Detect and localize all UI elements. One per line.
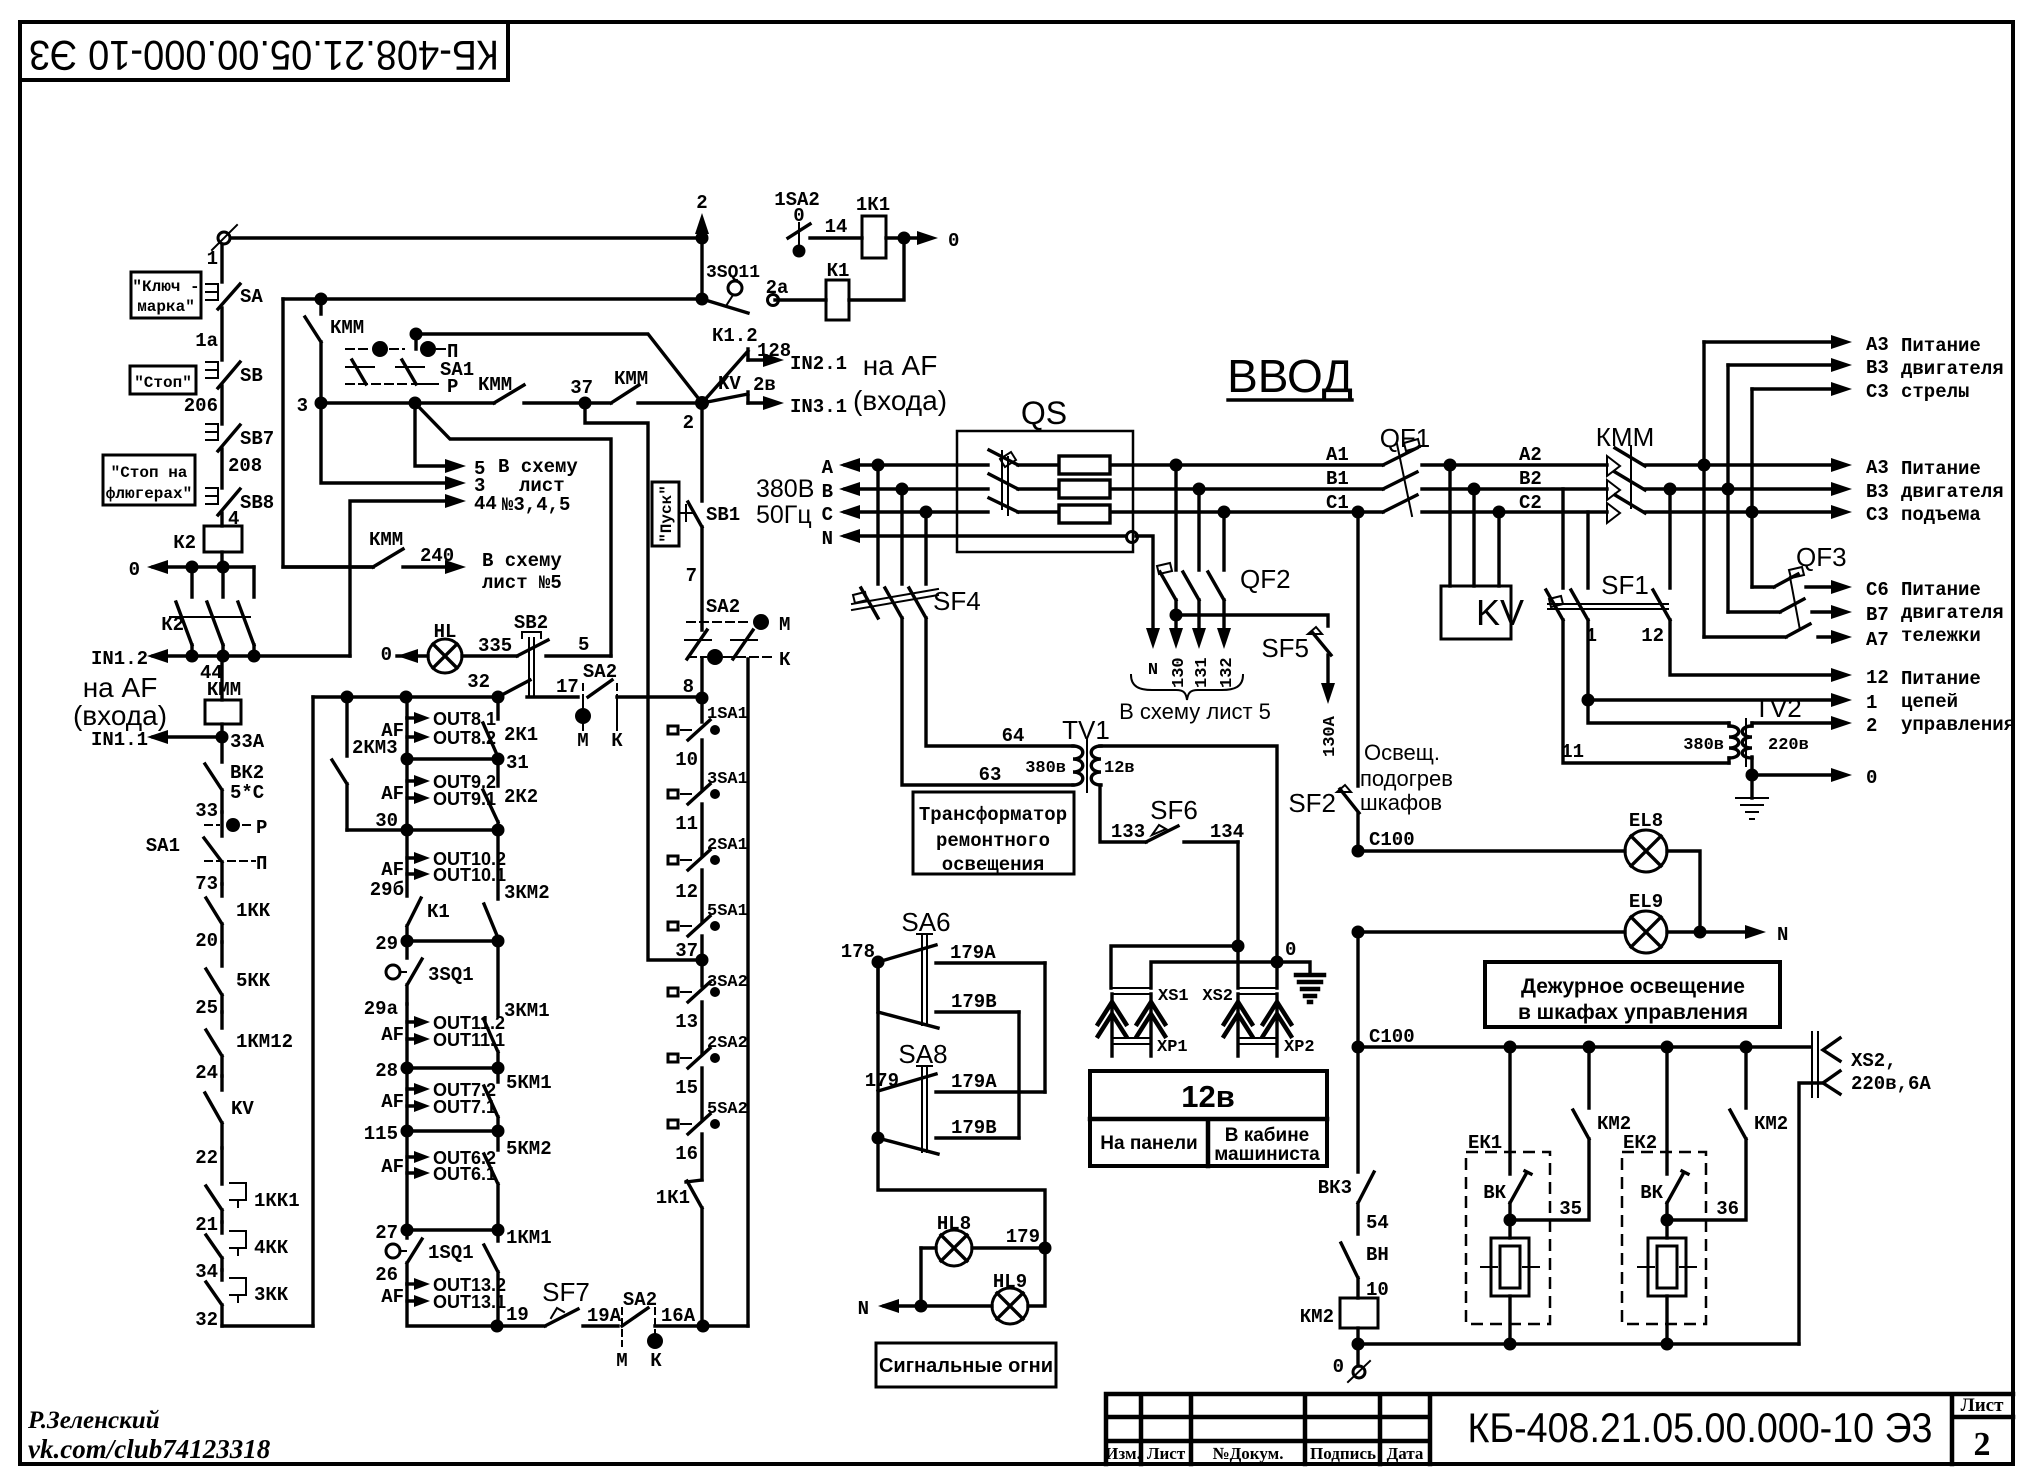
svg-text:QF3: QF3 [1796,542,1847,572]
wire 208 [222,449,262,488]
svg-text:А3: А3 [1866,334,1889,356]
wire SA6 179A drop [1043,963,1046,1092]
svg-text:2КМ3: 2КМ3 [352,737,398,759]
node on 0 rail [186,561,199,574]
thermo contact BK in EK2 [1640,1047,1688,1204]
svg-text:на AF: на AF [863,350,938,381]
svg-text:SB7: SB7 [240,428,274,450]
wire top feed 2 [232,236,698,239]
contact 1K1 [656,1180,702,1326]
svg-text:5SA1: 5SA1 [707,902,748,921]
ground TV2 [1736,775,1768,819]
svg-text:Р: Р [447,376,458,398]
svg-text:OUT6.1: OUT6.1 [433,1164,496,1184]
svg-text:IN1.2: IN1.2 [91,648,148,670]
contact KM2 second [1667,1041,1788,1221]
pushbutton SB1 [680,502,740,527]
svg-text:SF6: SF6 [1150,795,1198,825]
arrow OUT7.1 [407,1089,496,1117]
breaker SF6 [1100,785,1244,946]
svg-text:С3: С3 [1866,504,1889,526]
node 3SQ11 line [696,293,709,306]
svg-text:КБ-408.21.05.00.000-10 Э3: КБ-408.21.05.00.000-10 Э3 [29,32,499,79]
thermo contact BK3 [1318,1047,1389,1234]
svg-text:64: 64 [1002,725,1025,747]
svg-text:(входа): (входа) [853,385,947,416]
svg-text:AF: AF [381,859,404,881]
node 115 left [401,1125,414,1138]
connector XS2 220v [1812,1032,1931,1097]
svg-text:16: 16 [675,1143,698,1165]
wire 2 feed [1752,715,1877,737]
lamp EL9 heater [1358,891,1758,953]
svg-text:2: 2 [696,192,707,214]
node bus OUT col [400,691,413,704]
svg-text:К1.2: К1.2 [712,325,758,347]
label AF 7 [381,1286,404,1308]
contact KMM upper [305,299,364,403]
svg-text:SA6: SA6 [901,907,950,937]
svg-text:5КМ1: 5КМ1 [506,1072,552,1094]
svg-text:К: К [611,730,623,752]
wire row 115 [364,1106,498,1145]
contact KM2 first [1510,1041,1631,1221]
svg-text:А7: А7 [1866,629,1889,651]
contact 1KM1 [484,1227,552,1326]
svg-text:тележки: тележки [1901,625,1981,647]
node 0 TV2 [1746,769,1759,782]
svg-text:А: А [822,457,834,479]
svg-text:Р.Зеленский: Р.Зеленский [27,1407,160,1434]
svg-text:AF: AF [381,1286,404,1308]
svg-text:Питание: Питание [1901,668,1981,690]
svg-text:SF4: SF4 [933,586,981,616]
ground connector area [1277,962,1324,1002]
svg-text:К2: К2 [173,532,196,554]
thermo switch BK2 [205,737,264,812]
node SF4 pole A [872,459,885,472]
svg-text:SB2: SB2 [514,612,548,634]
lamp EL8 heater [1358,810,1700,932]
wire TV1 secondary top [1100,746,1277,962]
svg-text:34: 34 [195,1261,218,1283]
label В схему лист №3,4,5 [498,456,578,516]
svg-text:"Ключ -: "Ключ - [132,278,199,296]
wire 20 [195,930,218,952]
arrow A3 boom [1704,334,1889,356]
wire from XS2 to rail [1799,1083,1823,1344]
box label Стоп на флюгерах [103,455,195,505]
svg-text:26: 26 [375,1264,398,1286]
selector SA2 bottom [616,1289,703,1372]
svg-text:двигателя: двигателя [1901,358,2004,380]
phase B line [822,481,1383,503]
svg-text:подогрев: подогрев [1360,766,1453,791]
riser C3-C6 [1750,389,1753,587]
svg-text:21: 21 [195,1214,218,1236]
wire bus lower connectors [1151,962,1277,988]
contact KV [205,1076,254,1148]
svg-text:ВК3: ВК3 [1318,1177,1352,1199]
svg-text:Р: Р [256,817,267,839]
svg-text:В кабине: В кабине [1225,1125,1310,1146]
svg-text:19: 19 [506,1304,529,1326]
svg-text:130: 130 [1170,657,1189,688]
svg-text:SF2: SF2 [1288,788,1336,818]
svg-text:IN1.1: IN1.1 [91,729,148,751]
heater box EK2 [1622,1132,1706,1324]
node 30 left [401,824,414,837]
wire bus 299 [283,297,702,300]
svg-text:Лист: Лист [1147,1444,1186,1463]
node rail pole3 [248,650,261,663]
svg-text:ВН: ВН [1366,1244,1389,1266]
contact 3KM1 [484,941,550,1068]
arrow 5 to sheet [415,403,485,480]
selector SA2 upper blades [685,630,757,659]
riser B3-B7 [1726,365,1729,612]
svg-text:2: 2 [1974,1426,1991,1463]
svg-text:XS2: XS2 [1202,987,1233,1006]
svg-text:2SA1: 2SA1 [707,836,748,855]
svg-text:380в: 380в [1683,736,1724,755]
contact KMM 240 [283,529,403,567]
svg-text:130А: 130А [1321,715,1340,757]
svg-text:133: 133 [1111,821,1145,843]
svg-text:5: 5 [578,634,589,656]
svg-text:1КК: 1КК [236,900,271,922]
svg-text:С100: С100 [1369,829,1415,851]
switch SA8 [865,962,1045,1154]
svg-text:36: 36 [1716,1198,1739,1220]
wire 34 [195,1261,218,1283]
svg-text:"Стоп на: "Стоп на [111,464,188,482]
svg-text:В: В [822,481,833,503]
svg-text:2К1: 2К1 [504,724,538,746]
svg-text:ремонтного: ремонтного [936,830,1050,852]
wire row 29 [375,933,498,955]
transformer TV1 [902,618,1135,792]
node 179 common [872,1132,885,1145]
svg-text:B1: B1 [1326,468,1349,490]
node 178 [872,956,885,969]
node rail EK2 [1661,1338,1674,1351]
node 28 left [401,1062,414,1075]
title block labels [1105,1444,1424,1463]
contact 2SA2 [668,1034,748,1120]
breaker SF2 [1288,512,1359,851]
svg-text:П: П [256,853,267,875]
arrow OUT8.2 [407,718,496,748]
pushbutton SB [206,362,263,388]
svg-text:0: 0 [129,559,140,581]
svg-text:OUT13.1: OUT13.1 [433,1292,506,1312]
contact 5KM1 [484,1068,552,1131]
svg-text:HL: HL [434,621,457,643]
wire row 19 bottom [407,1301,529,1326]
thermal contact 5KK [206,942,271,1012]
svg-text:179А: 179А [951,1071,997,1093]
svg-text:двигателя: двигателя [1901,481,2004,503]
svg-text:380в: 380в [1025,759,1066,778]
svg-text:50Гц: 50Гц [756,501,812,529]
svg-text:КМ2: КМ2 [1754,1113,1788,1135]
QS fuse A [1059,456,1110,474]
svg-text:A1: A1 [1326,444,1349,466]
arrow 240 to sheet5 [403,545,466,574]
arrow OUT9.1 [407,781,496,809]
svg-text:SA2: SA2 [583,661,617,683]
wire 12 feed [1670,620,1889,689]
node 19 [491,1320,504,1333]
arrow OUT11.2 [407,1004,505,1033]
bus C100 [1358,1045,1810,1048]
heater element EK1 [1481,1238,1539,1344]
node QF2 to SF5 [1170,609,1183,622]
svg-text:179: 179 [1006,1226,1040,1248]
label Освещ подогрев шкафов [1360,740,1453,815]
selector SA1 contact Pi [205,853,267,875]
svg-text:1К1: 1К1 [656,1187,690,1209]
svg-text:С100: С100 [1369,1026,1415,1048]
relay KV box [1441,465,1524,639]
QS fuse B [1059,480,1110,498]
wire right branch vertical [746,659,749,1326]
svg-text:В схему: В схему [482,550,562,572]
svg-text:178: 178 [841,941,875,963]
selector SA2 upper K line [688,649,791,671]
arrow OUT10.1 [370,858,506,901]
wire bus 403 [321,401,494,404]
contact 3SA1 [668,770,748,856]
wire row 28 [375,1039,498,1082]
node top KMM branch [315,293,328,306]
svg-text:22: 22 [195,1147,218,1169]
svg-text:25: 25 [195,997,218,1019]
svg-text:SA1: SA1 [146,835,180,857]
connector XP2 [1238,1038,1315,1057]
svg-text:AF: AF [381,783,404,805]
node 115 right [492,1125,505,1138]
svg-text:KV: KV [1476,592,1524,633]
svg-text:SA2: SA2 [623,1289,657,1311]
relay coil K1 [826,238,904,320]
svg-text:206: 206 [184,395,218,417]
pushbutton SA [206,284,263,309]
title box top-left with flipped document code [20,22,508,80]
wire SA6 179B drop [1017,1012,1020,1138]
svg-text:C2: C2 [1519,492,1542,514]
label 380V 50Hz [756,475,814,529]
svg-text:флюгерах": флюгерах" [106,485,192,503]
node KV pole B [1468,483,1481,496]
label AF 6 [381,1156,404,1178]
svg-text:В7: В7 [1866,604,1889,626]
svg-text:31: 31 [506,752,529,774]
wire OUT column vertical top [405,697,408,718]
svg-text:В3: В3 [1866,357,1889,379]
node QF2 pole B [1193,483,1206,496]
svg-text:SB8: SB8 [240,492,274,514]
node 0 connector bus [1271,939,1297,969]
svg-text:OUT8.1: OUT8.1 [433,709,496,729]
pushbutton SB2 with link [514,612,611,695]
svg-text:32: 32 [195,1309,218,1331]
node KV pole A [1444,459,1457,472]
contact 3SA2 [668,960,748,1054]
selector SA1 mid blades [346,359,474,384]
svg-text:0: 0 [1333,1356,1344,1378]
contact 5KM2 [484,1131,552,1230]
svg-text:73: 73 [195,873,218,895]
thermo contact BK in EK1 [1483,1047,1531,1204]
svg-text:SA8: SA8 [898,1039,947,1069]
switch QS box [957,395,1133,552]
svg-text:№3,4,5: №3,4,5 [502,494,570,516]
node A3 riser [1698,459,1711,472]
phase C line [822,504,1383,526]
svg-text:SF1: SF1 [1601,570,1649,600]
selector SA1 line R [346,376,458,398]
svg-text:"Стоп": "Стоп" [134,374,192,392]
svg-text:3: 3 [297,395,308,417]
node bus left 2KM3 [341,691,354,704]
svg-text:С3: С3 [1866,381,1889,403]
svg-text:лист №5: лист №5 [482,572,562,594]
svg-text:К: К [650,1350,662,1372]
svg-text:27: 27 [375,1222,398,1244]
svg-text:управления: управления [1901,714,2015,736]
svg-text:стрелы: стрелы [1901,381,1969,403]
svg-text:КММ: КММ [330,317,364,339]
svg-text:Дежурное освещение: Дежурное освещение [1521,975,1745,998]
wire 32 to loop bottom [195,1309,313,1331]
wire row 30 [347,828,498,831]
svg-text:освещения: освещения [942,854,1045,876]
contact SB2 lower 32-17 [498,676,579,698]
arrow OUT13.1 [407,1284,506,1312]
svg-text:N: N [1148,661,1158,680]
node C3 riser [1746,506,1759,519]
svg-text:SF7: SF7 [542,1277,590,1307]
label AF 5 [381,1091,404,1113]
svg-text:179В: 179В [951,991,997,1013]
contact 1SA2-0 [774,189,862,258]
svg-text:0: 0 [948,230,959,252]
svg-text:1КМ12: 1КМ12 [236,1031,293,1053]
breaker SF4 [852,465,981,618]
node 27 left [401,1224,414,1237]
junction node 2 [683,396,709,434]
svg-text:№Докум.: №Докум. [1213,1444,1284,1463]
contact 5SA1 [668,902,748,962]
signature Р.Зеленский [27,1407,160,1434]
wire 24 [195,1062,218,1084]
svg-text:КБ-408.21.05.00.000-10 Э3: КБ-408.21.05.00.000-10 Э3 [1468,1404,1933,1451]
node 134 bus [1232,940,1245,953]
svg-text:1К1: 1К1 [856,194,890,216]
svg-text:3КМ1: 3КМ1 [504,1000,550,1022]
wire P output to junction [416,334,702,403]
node 37 [570,377,593,410]
wire row 27 [375,1173,498,1244]
svg-text:0: 0 [1866,767,1877,789]
node C100 EK1 [1504,1041,1517,1054]
arrow B3 boom [1728,357,1889,379]
label AF 3 [381,859,404,881]
breaker QF2 [1157,465,1291,600]
contact 2SA1 [668,836,748,922]
node KV pole C [1493,506,1506,519]
arrow A3 hoist [1752,457,1889,479]
QS neutral contact circle [1127,532,1161,681]
wire 1 feed [1582,620,1878,714]
connector XS2 panel [1202,987,1291,1056]
svg-text:29: 29 [375,933,398,955]
wire loop vertical mid [311,697,314,1326]
node QF2 pole C [1218,506,1231,519]
svg-text:ЕК1: ЕК1 [1468,1132,1502,1154]
svg-text:12: 12 [1866,667,1889,689]
svg-text:131: 131 [1193,657,1212,688]
arrow C3 hoist [1752,504,1889,526]
svg-text:12в: 12в [1181,1079,1235,1114]
arrow B3 hoist [1752,481,1889,503]
svg-text:1SQ1: 1SQ1 [428,1242,474,1264]
svg-text:двигателя: двигателя [1901,602,2004,624]
heater box EK1 [1466,1132,1550,1324]
svg-text:К1: К1 [827,260,850,282]
arrow IN2.1 [748,353,847,375]
box label Ключ-марка [131,272,201,318]
heading ВВОД [1227,350,1353,402]
node 28 right [492,1062,505,1075]
wire 73 [195,873,218,895]
svg-text:марка": марка" [137,298,195,316]
breaker SF5 [1176,615,1340,757]
svg-text:1а: 1а [195,330,218,352]
svg-text:1SA1: 1SA1 [707,705,748,724]
box label Трансформатор ремонтного освещения [913,792,1074,876]
wire 1 [207,245,222,282]
svg-text:М: М [616,1350,627,1372]
svg-text:машиниста: машиниста [1214,1144,1320,1165]
label на AF (входа) left [73,672,167,731]
svg-text:КММ: КММ [1596,422,1654,452]
box label Пуск [652,482,679,546]
contactor coil KMM [205,656,241,724]
node P top [410,328,423,341]
wire to node 30 [375,798,407,832]
label AF 4 [381,1024,404,1046]
label Питание цепей управления [1901,668,2015,736]
phase A line [822,457,1383,479]
svg-text:"Пуск": "Пуск" [658,485,676,543]
svg-text:63: 63 [979,764,1002,786]
svg-text:12в: 12в [1104,759,1135,778]
lamp HL9 [921,1248,1045,1324]
arrow OUT7.2 [407,1068,496,1100]
wire 1a [195,308,222,360]
svg-text:19А: 19А [587,1305,622,1327]
wire SA8 common to lamps [878,1138,1045,1248]
svg-text:179В: 179В [951,1117,997,1139]
svg-text:KV: KV [231,1098,254,1120]
svg-text:SA2: SA2 [706,596,740,618]
arrow 0 right top [917,230,959,252]
svg-text:1: 1 [1866,692,1877,714]
svg-text:Изм.: Изм. [1105,1444,1141,1463]
